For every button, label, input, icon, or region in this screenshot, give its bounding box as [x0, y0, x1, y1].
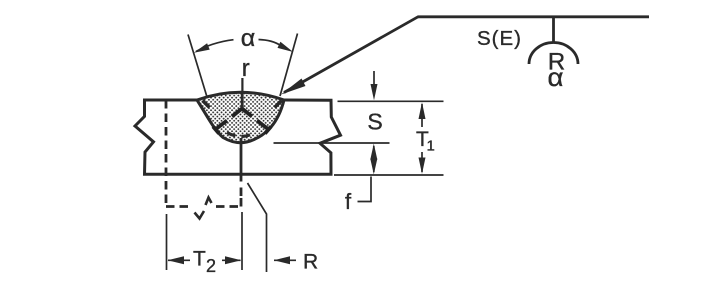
leader arrowhead	[281, 79, 306, 95]
svg-text:R: R	[303, 250, 318, 273]
hidden groove top-right dash	[275, 101, 282, 108]
svg-text:α: α	[548, 62, 564, 92]
T2 dimension right arrow	[222, 259, 241, 261]
svg-text:S: S	[367, 109, 382, 135]
R jog extension line	[248, 183, 267, 272]
groove angle slant line left	[188, 35, 207, 98]
T2 dimension left arrow	[168, 259, 190, 261]
angle dimension arc left half	[196, 40, 234, 52]
U-groove weld symbol arc	[529, 43, 578, 65]
angle dimension arc right half	[259, 40, 281, 46]
groove angle slant line right	[280, 34, 298, 97]
double arrow down arrowhead	[370, 159, 377, 175]
T2 extension line left	[166, 214, 168, 270]
welding symbol reference line	[418, 15, 650, 18]
root centerline dash below plate	[240, 188, 243, 197]
R dimension arrow	[274, 259, 296, 261]
hidden groove dashed bottom arc	[227, 133, 255, 137]
dashed hidden member right corner	[240, 198, 243, 207]
weld centerline (upper tick below r)	[241, 78, 243, 92]
hidden groove top-left dash	[203, 101, 210, 108]
welding symbol leader line	[284, 17, 418, 93]
weld stipple fill	[197, 92, 284, 142]
f leader elbow	[358, 177, 372, 202]
dashed hidden member left side	[165, 100, 168, 204]
welding symbol stem	[552, 18, 555, 43]
svg-text:2: 2	[206, 256, 216, 276]
svg-text:1: 1	[427, 137, 435, 154]
svg-text:S(E): S(E)	[477, 27, 522, 50]
extension line bottom (plate bottom)	[334, 174, 444, 176]
angle arc left arrowhead	[194, 43, 210, 53]
double arrow between root and bottom, up arrowhead	[373, 146, 375, 172]
plate cross-section outline	[135, 100, 341, 174]
angle arc right arrowhead	[278, 42, 294, 52]
extension line top (plate surface)	[338, 100, 444, 102]
hidden groove dash left branch	[213, 109, 242, 134]
T1 dimension line lower with down arrowhead	[421, 152, 423, 172]
T1 dimension line upper with up arrowhead	[421, 104, 423, 127]
weld bead outline	[197, 92, 284, 142]
hidden groove dash right branch	[242, 109, 271, 134]
svg-text:T: T	[193, 247, 206, 270]
extension line root level	[274, 142, 390, 144]
T2 extension line right	[241, 212, 243, 270]
dashed hidden member bottom with break	[166, 205, 191, 208]
root centerline below weld through plate	[240, 138, 243, 182]
weld centerline inside bead	[241, 91, 244, 109]
svg-text:α: α	[241, 25, 256, 52]
svg-text:f: f	[345, 189, 352, 214]
svg-text:r: r	[242, 55, 250, 82]
S dimension down arrow	[373, 71, 375, 90]
break squiggle in dashed bottom	[195, 211, 205, 219]
